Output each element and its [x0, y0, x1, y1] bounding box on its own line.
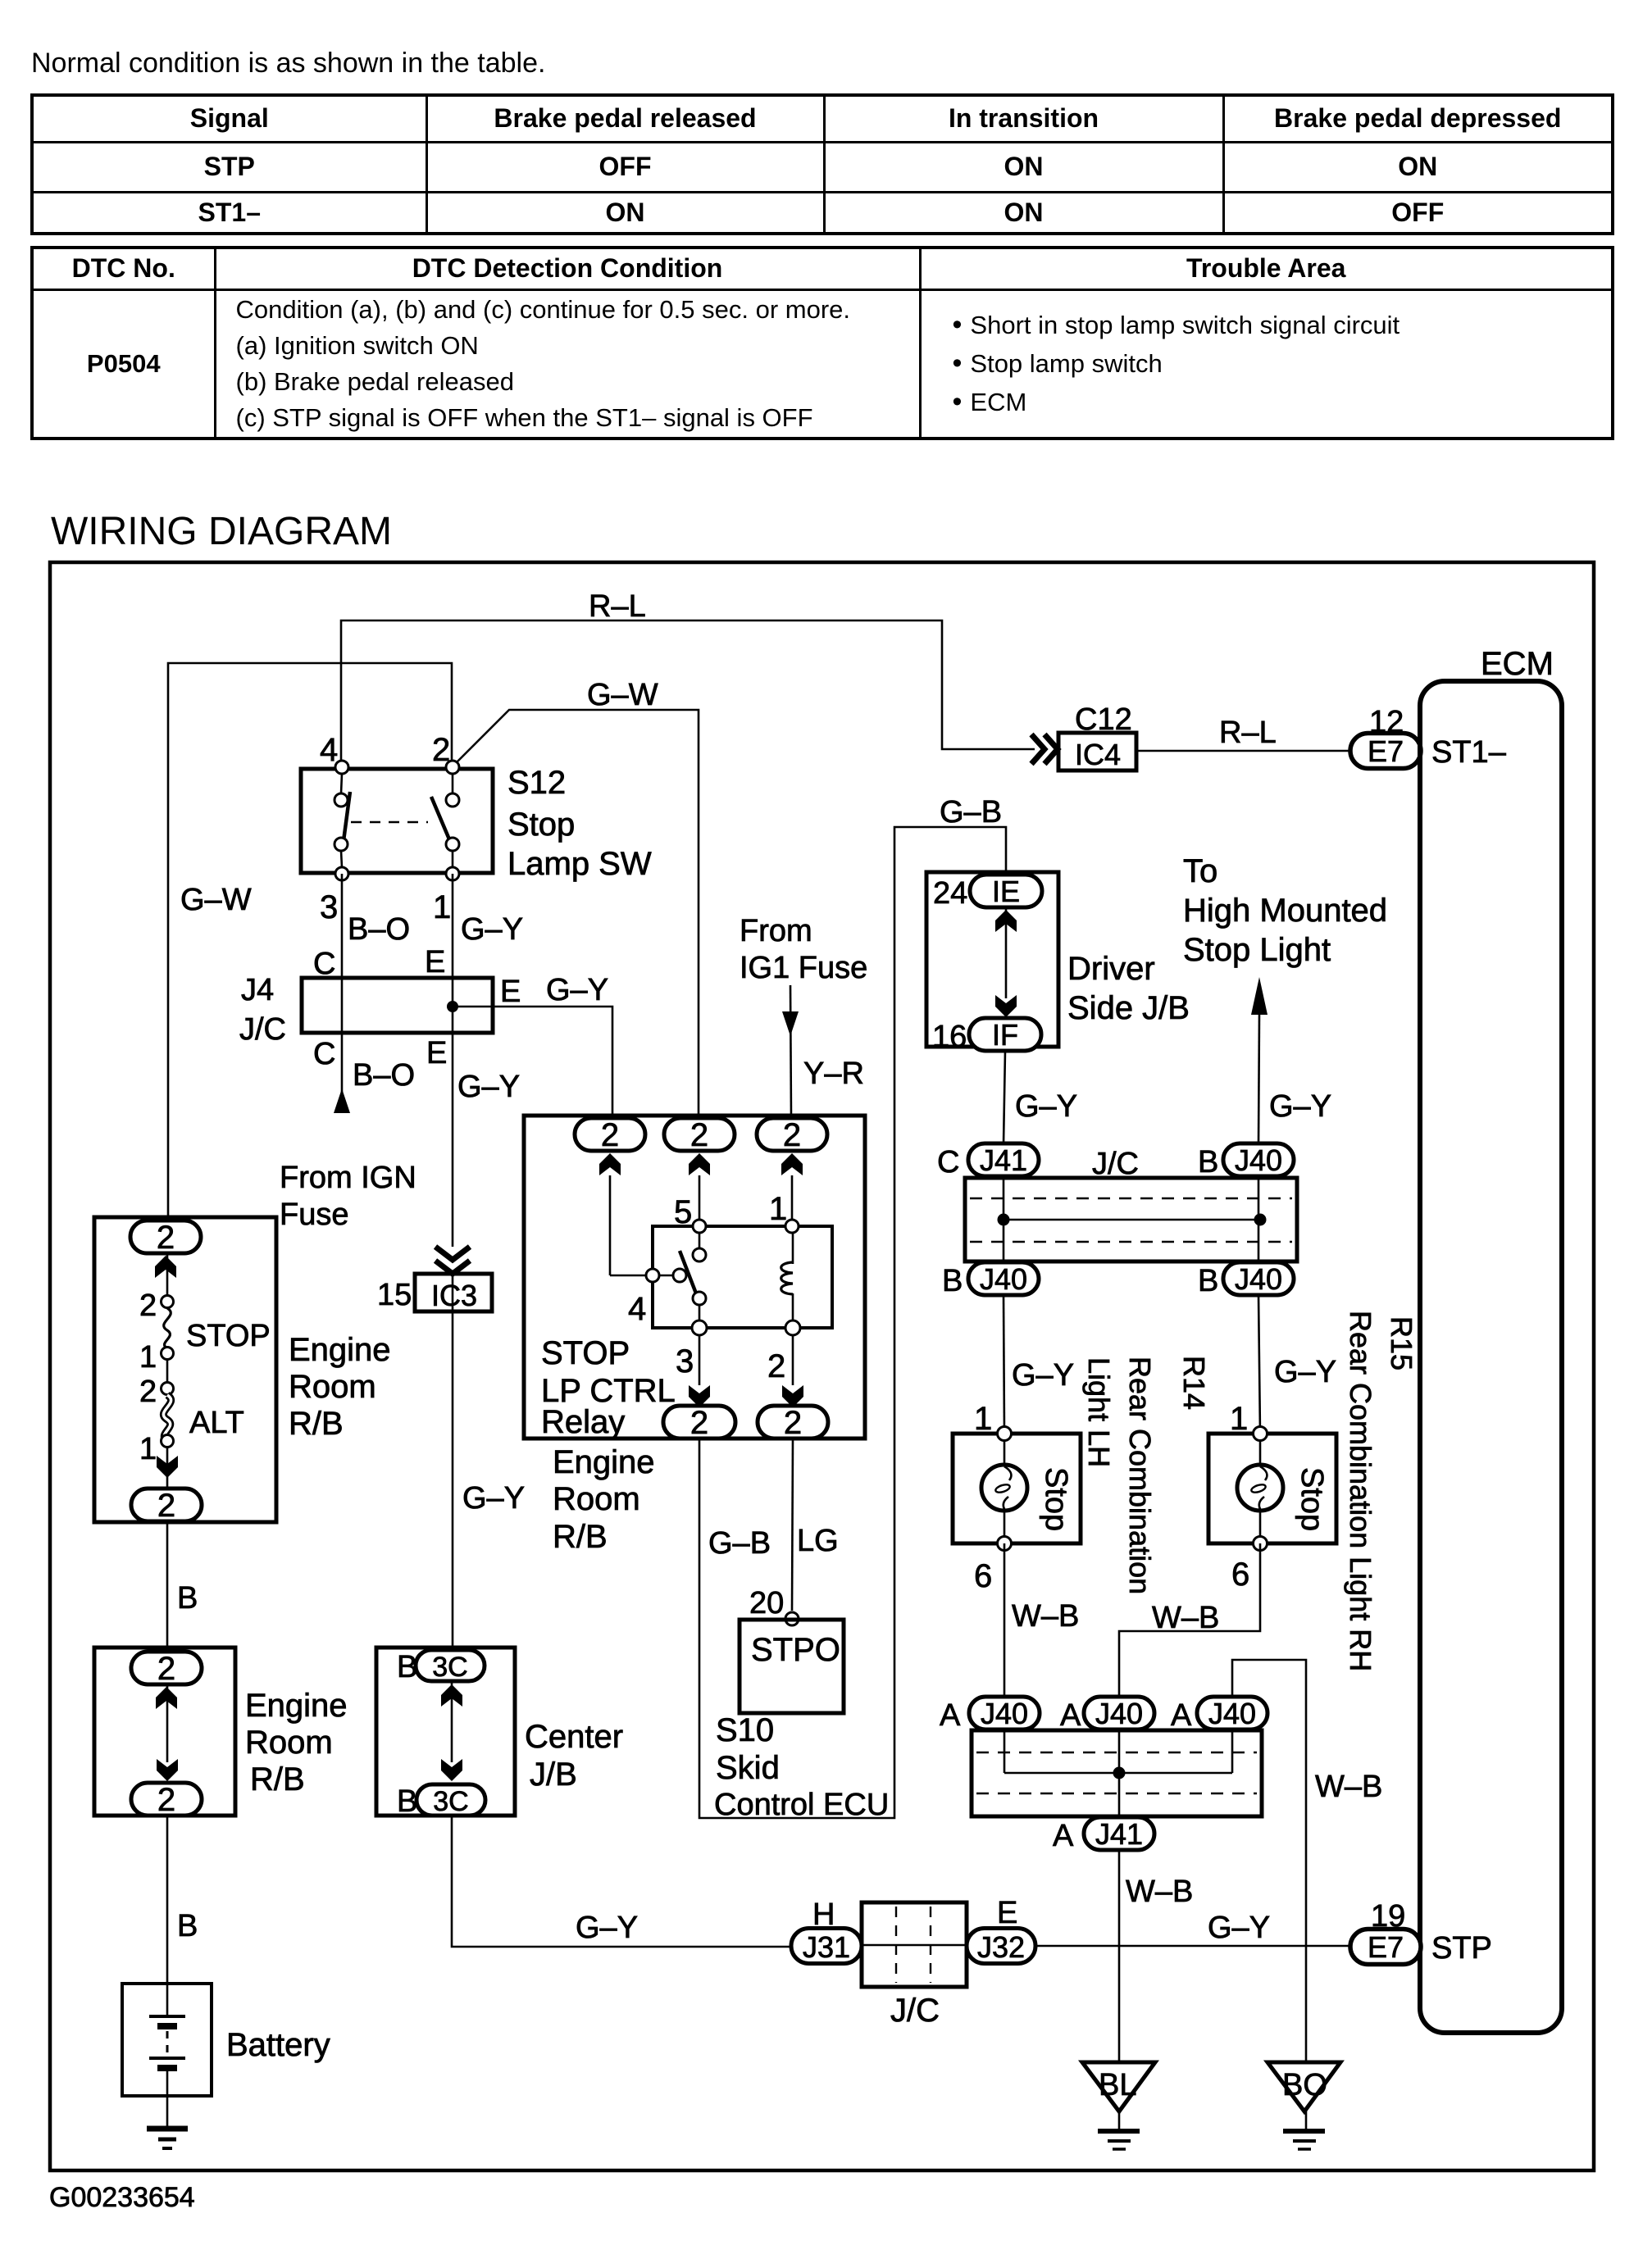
svg-text:C: C [937, 1145, 959, 1179]
ECM connector E7 pin 19 [1350, 1899, 1421, 1965]
svg-text:3C: 3C [432, 1652, 467, 1683]
intro text [31, 48, 545, 80]
svg-text:STP: STP [1431, 1931, 1492, 1966]
wire B-O S12 pin3 to J4 [341, 874, 344, 978]
wire through J4 left [341, 978, 344, 1033]
svg-text:Rear Combination: Rear Combination [1123, 1357, 1157, 1594]
svg-text:G–Y: G–Y [462, 1481, 525, 1516]
junction J/C box bottom [862, 1902, 967, 2029]
svg-text:C12: C12 [1075, 702, 1132, 737]
label engine room R/B [245, 1688, 348, 1798]
rear combination light LH R14 [953, 1401, 1081, 1594]
svg-text:B: B [942, 1264, 963, 1298]
svg-text:ECM: ECM [1481, 646, 1554, 682]
wire LG from relay to STPO [792, 1439, 793, 1611]
bulb LH [981, 1465, 1027, 1511]
svg-text:W–B: W–B [1152, 1601, 1219, 1635]
svg-text:2: 2 [784, 1405, 802, 1441]
center J/B box [376, 1648, 623, 1816]
relay inner box [653, 1226, 832, 1328]
svg-text:2: 2 [690, 1405, 708, 1441]
ECM connector E7 pin 12 [1350, 705, 1421, 769]
connector B J40 top right [1198, 1143, 1294, 1179]
svg-text:Driver: Driver [1067, 951, 1155, 987]
svg-text:IC4: IC4 [1075, 738, 1121, 771]
connector 2 oval bottom [131, 1488, 202, 1524]
svg-text:A: A [940, 1698, 961, 1733]
svg-text:BL: BL [1099, 2068, 1136, 2102]
svg-text:BO: BO [1282, 2068, 1327, 2102]
svg-text:24: 24 [933, 876, 967, 911]
wire G-Y from J4 down to center J/B [452, 1033, 454, 1247]
pin 20 STPO [749, 1586, 799, 1625]
connector 3C oval bottom [397, 1784, 485, 1819]
wire R-L from IC4 to ECM pin 12 [1136, 750, 1351, 752]
arrow down [157, 1759, 178, 1781]
engine room R/B box 2 [94, 1648, 235, 1816]
svg-text:IE: IE [992, 875, 1020, 908]
svg-text:15: 15 [377, 1278, 412, 1312]
svg-text:J/C: J/C [239, 1012, 286, 1047]
svg-text:IF: IF [992, 1018, 1018, 1052]
svg-text:ST1–: ST1– [1431, 735, 1507, 770]
svg-text:ALT: ALT [189, 1406, 244, 1440]
svg-text:R–L: R–L [1219, 716, 1277, 750]
svg-text:Skid: Skid [716, 1750, 780, 1786]
svg-text:20: 20 [749, 1586, 784, 1620]
svg-text:J31: J31 [803, 1930, 850, 1964]
svg-text:G–Y: G–Y [457, 1070, 520, 1104]
connector 3C oval top [397, 1650, 485, 1684]
svg-text:B: B [397, 1650, 417, 1684]
svg-text:2: 2 [139, 1289, 157, 1323]
svg-text:19: 19 [1371, 1899, 1405, 1934]
svg-text:B: B [177, 1581, 198, 1616]
wire G-Y to LH stop lamp [1004, 1295, 1004, 1434]
svg-text:2: 2 [601, 1117, 619, 1153]
relay pins [628, 1191, 800, 1384]
svg-text:To: To [1183, 853, 1217, 889]
svg-text:A: A [1060, 1698, 1081, 1733]
svg-text:C: C [313, 1037, 335, 1071]
svg-text:R15: R15 [1385, 1316, 1418, 1370]
svg-text:STPO: STPO [751, 1632, 840, 1668]
svg-text:2: 2 [157, 1220, 175, 1256]
svg-text:J/C: J/C [1092, 1147, 1139, 1181]
connector A J40 middle [1060, 1697, 1154, 1733]
svg-text:R–L: R–L [589, 589, 646, 624]
svg-text:R/B: R/B [289, 1406, 344, 1442]
connector J31 [791, 1898, 862, 1964]
wire Y-R from IG1 fuse to relay [740, 914, 867, 1118]
svg-text:4: 4 [320, 732, 338, 768]
svg-text:G00233654: G00233654 [49, 2182, 195, 2213]
ground BL [1082, 2062, 1155, 2149]
svg-text:S10: S10 [716, 1712, 774, 1748]
section heading [51, 509, 392, 554]
svg-text:G–W: G–W [180, 883, 252, 917]
wire G-Y from IF to J41 [1004, 1051, 1005, 1144]
wire W-B from J41 to BL ground [1118, 1850, 1121, 2131]
wire B to battery [166, 1816, 169, 2016]
wire R-L from S12 pin 4 to IC4 [341, 620, 1035, 767]
svg-text:G–Y: G–Y [1012, 1358, 1074, 1393]
junction J/C box upper [965, 1147, 1297, 1263]
svg-text:G–W: G–W [587, 678, 658, 712]
svg-text:S12: S12 [507, 765, 566, 801]
arrow up [156, 1687, 177, 1709]
svg-text:R14: R14 [1177, 1356, 1211, 1410]
svg-text:2: 2 [783, 1117, 801, 1153]
arrow down [441, 1759, 462, 1781]
svg-text:2: 2 [690, 1117, 708, 1153]
svg-text:Stop: Stop [1039, 1467, 1073, 1531]
svg-text:Stop Light: Stop Light [1183, 932, 1331, 968]
label R15 rear combination light RH [1344, 1311, 1418, 1671]
svg-text:3C: 3C [433, 1786, 468, 1817]
engine room R/B fuse box (STOP/ALT) [94, 1217, 276, 1522]
svg-text:J40: J40 [980, 1262, 1027, 1296]
junction J4 J/C box [239, 973, 493, 1047]
wire W-B from RH lamp to J40 [1119, 1543, 1260, 1697]
svg-text:1: 1 [974, 1401, 992, 1437]
svg-text:E: E [500, 975, 521, 1009]
svg-text:1: 1 [1230, 1401, 1248, 1437]
svg-text:From IGN: From IGN [280, 1161, 416, 1195]
svg-text:1: 1 [139, 1432, 157, 1466]
svg-text:J/B: J/B [530, 1757, 577, 1793]
svg-text:B: B [1198, 1264, 1218, 1298]
relay box STOP LP CTRL [524, 1116, 865, 1440]
fuse STOP [139, 1289, 271, 1375]
wire from IGN fuse with arrow [280, 1033, 416, 1232]
svg-text:J/C: J/C [890, 1993, 940, 2029]
svg-text:W–B: W–B [1012, 1599, 1079, 1634]
wire through J4 right [452, 978, 454, 1033]
wire G-Y S12 pin1 to J4 [452, 874, 454, 978]
svg-text:E: E [997, 1896, 1017, 1930]
connector 2 oval bottom [131, 1782, 202, 1818]
svg-text:G–Y: G–Y [1274, 1355, 1336, 1389]
svg-text:B: B [397, 1784, 417, 1819]
svg-text:G–Y: G–Y [461, 912, 523, 947]
svg-text:2: 2 [157, 1651, 175, 1687]
label engine room R/B [289, 1332, 391, 1442]
wire B [166, 1522, 169, 1648]
wire W-B to BO ground [1232, 1660, 1306, 2131]
wire G-W from S12 pin 2 to relay [457, 710, 699, 1118]
svg-text:G–Y: G–Y [546, 973, 608, 1007]
wire G-B from relay around S10 to driver side J/B [699, 827, 1006, 1818]
svg-text:Room: Room [553, 1481, 640, 1517]
svg-text:2: 2 [157, 1488, 175, 1524]
svg-text:B: B [177, 1909, 198, 1943]
svg-text:Room: Room [245, 1725, 333, 1761]
svg-text:R/B: R/B [250, 1761, 305, 1798]
svg-text:Lamp SW: Lamp SW [507, 846, 652, 882]
wire G-W from stop fuse to S12 pin 2 [168, 663, 452, 1217]
svg-text:3: 3 [676, 1343, 694, 1379]
svg-text:A: A [1171, 1698, 1192, 1733]
svg-text:G–Y: G–Y [1208, 1911, 1270, 1945]
svg-text:Light LH: Light LH [1082, 1357, 1116, 1467]
wire W-B from LH lamp to J40 [1004, 1543, 1006, 1697]
svg-text:E: E [426, 1036, 447, 1070]
svg-text:J41: J41 [980, 1143, 1027, 1177]
label S10 skid control ECU [714, 1712, 889, 1822]
svg-text:IC3: IC3 [431, 1279, 477, 1312]
svg-text:3: 3 [320, 889, 338, 925]
svg-text:J40: J40 [1235, 1143, 1282, 1177]
svg-text:STOP: STOP [186, 1319, 271, 1353]
svg-text:Stop: Stop [507, 807, 575, 843]
svg-text:J41: J41 [1095, 1817, 1143, 1851]
svg-text:IG1 Fuse: IG1 Fuse [740, 951, 867, 985]
svg-text:High Mounted: High Mounted [1183, 893, 1387, 929]
svg-text:G–B: G–B [940, 795, 1002, 829]
arrow up IE [995, 910, 1017, 932]
connector 2 ovals relay bottom [663, 1405, 735, 1441]
junction J/C box lower [972, 1730, 1262, 1816]
svg-text:Room: Room [289, 1369, 376, 1405]
connector C12 IC4 box [1058, 702, 1136, 771]
ECM box [1420, 646, 1562, 2033]
svg-text:J40: J40 [1208, 1697, 1256, 1730]
svg-text:B–O: B–O [348, 912, 410, 947]
connector IE pin 24 [933, 875, 1042, 911]
svg-text:Relay: Relay [541, 1404, 625, 1440]
connector 2 oval top [131, 1651, 202, 1687]
wire to high mounted stop light [1183, 853, 1387, 1144]
connector A J40 right [1171, 1697, 1268, 1733]
connector B J40 bottom left [942, 1262, 1039, 1298]
connector 2 oval top [130, 1220, 201, 1256]
ECU box STPO [740, 1620, 844, 1713]
svg-text:4: 4 [628, 1291, 646, 1327]
connector chevrons 15 [435, 1247, 470, 1274]
label R14 rear combination light LH [1082, 1356, 1211, 1594]
DTC table [30, 246, 1614, 440]
label engine room R/B below relay [553, 1444, 655, 1555]
svg-text:E7: E7 [1368, 734, 1404, 768]
svg-text:2: 2 [767, 1348, 785, 1384]
connector A J40 left [940, 1697, 1040, 1733]
wires inside relay [610, 1175, 793, 1385]
svg-text:E7: E7 [1368, 1930, 1404, 1964]
svg-text:G–Y: G–Y [576, 1911, 638, 1945]
svg-text:LG: LG [797, 1524, 839, 1558]
connector chevrons C12 [1031, 734, 1058, 764]
svg-text:Rear Combination Light RH: Rear Combination Light RH [1344, 1311, 1377, 1671]
fuse ALT [139, 1375, 244, 1466]
battery [122, 1984, 330, 2126]
svg-text:1: 1 [139, 1340, 157, 1375]
svg-text:Y–R: Y–R [803, 1057, 864, 1091]
connector C J41 [937, 1143, 1039, 1179]
svg-text:1: 1 [433, 889, 451, 925]
bulb RH [1237, 1465, 1283, 1511]
node E junction dot [447, 1001, 458, 1012]
wire E G-Y branch to relay [453, 1007, 612, 1118]
svg-text:J32: J32 [977, 1930, 1025, 1964]
svg-text:E: E [425, 945, 445, 979]
connector 15 IC3 box [377, 1274, 492, 1312]
svg-text:G–Y: G–Y [1269, 1089, 1331, 1124]
arrow up [155, 1256, 176, 1278]
svg-text:G–Y: G–Y [1015, 1089, 1077, 1124]
wire G-Y from J32 to ECM STP [1035, 1945, 1351, 1948]
arrow down [157, 1456, 178, 1478]
svg-text:H: H [812, 1898, 835, 1932]
svg-text:Battery: Battery [226, 2027, 330, 2063]
driver side J/B box [926, 872, 1058, 1047]
switch S12 stop lamp switch [301, 732, 652, 925]
svg-text:W–B: W–B [1126, 1875, 1193, 1909]
svg-text:Side J/B: Side J/B [1067, 990, 1190, 1026]
svg-text:Stop: Stop [1295, 1467, 1329, 1531]
svg-text:W–B: W–B [1315, 1770, 1382, 1804]
svg-text:G–B: G–B [708, 1526, 771, 1561]
svg-text:A: A [1053, 1819, 1074, 1853]
ground BO [1268, 2062, 1340, 2149]
connector 2 ovals relay top [575, 1117, 645, 1153]
connector J32 [967, 1896, 1035, 1964]
svg-text:12: 12 [1369, 705, 1404, 739]
arrow down IF [995, 995, 1017, 1017]
svg-text:STOP: STOP [541, 1335, 630, 1371]
svg-text:2: 2 [139, 1375, 157, 1409]
connector IF pin 16 [932, 1018, 1041, 1054]
svg-text:Engine: Engine [553, 1444, 655, 1480]
svg-text:2: 2 [432, 732, 450, 768]
relay coil [781, 1232, 793, 1322]
svg-text:From: From [740, 914, 812, 948]
signal condition table [30, 93, 1614, 235]
connector A J41 bottom [1053, 1817, 1154, 1853]
svg-text:B–O: B–O [353, 1058, 415, 1093]
svg-text:5: 5 [674, 1194, 692, 1230]
svg-text:B: B [1198, 1145, 1218, 1179]
svg-text:R/B: R/B [553, 1519, 608, 1555]
svg-text:J40: J40 [981, 1697, 1028, 1730]
ground below battery [147, 2129, 188, 2148]
arrows up relay top [599, 1153, 621, 1175]
svg-text:Control ECU: Control ECU [714, 1788, 889, 1822]
svg-text:1: 1 [769, 1191, 787, 1227]
svg-text:16: 16 [932, 1020, 967, 1054]
svg-text:J40: J40 [1095, 1697, 1143, 1730]
connector B J40 bottom right [1198, 1262, 1294, 1298]
wire G-Y from center J/B to J31 [452, 1816, 792, 1947]
svg-text:Engine: Engine [245, 1688, 348, 1724]
label driver side J/B [1067, 951, 1190, 1026]
arrow up [441, 1684, 462, 1707]
svg-text:2: 2 [157, 1782, 175, 1818]
wire G-Y to RH stop lamp [1258, 1295, 1260, 1434]
svg-text:J40: J40 [1235, 1262, 1282, 1296]
svg-text:J4: J4 [241, 973, 274, 1007]
arrows down relay bottom [689, 1385, 710, 1407]
svg-text:Fuse: Fuse [280, 1198, 348, 1232]
rear combination light RH R15 [1208, 1401, 1336, 1593]
diagram frame border [50, 562, 1594, 2170]
svg-text:6: 6 [1231, 1557, 1249, 1593]
svg-text:Engine: Engine [289, 1332, 391, 1368]
svg-text:6: 6 [974, 1558, 992, 1594]
svg-text:Center: Center [525, 1719, 623, 1755]
